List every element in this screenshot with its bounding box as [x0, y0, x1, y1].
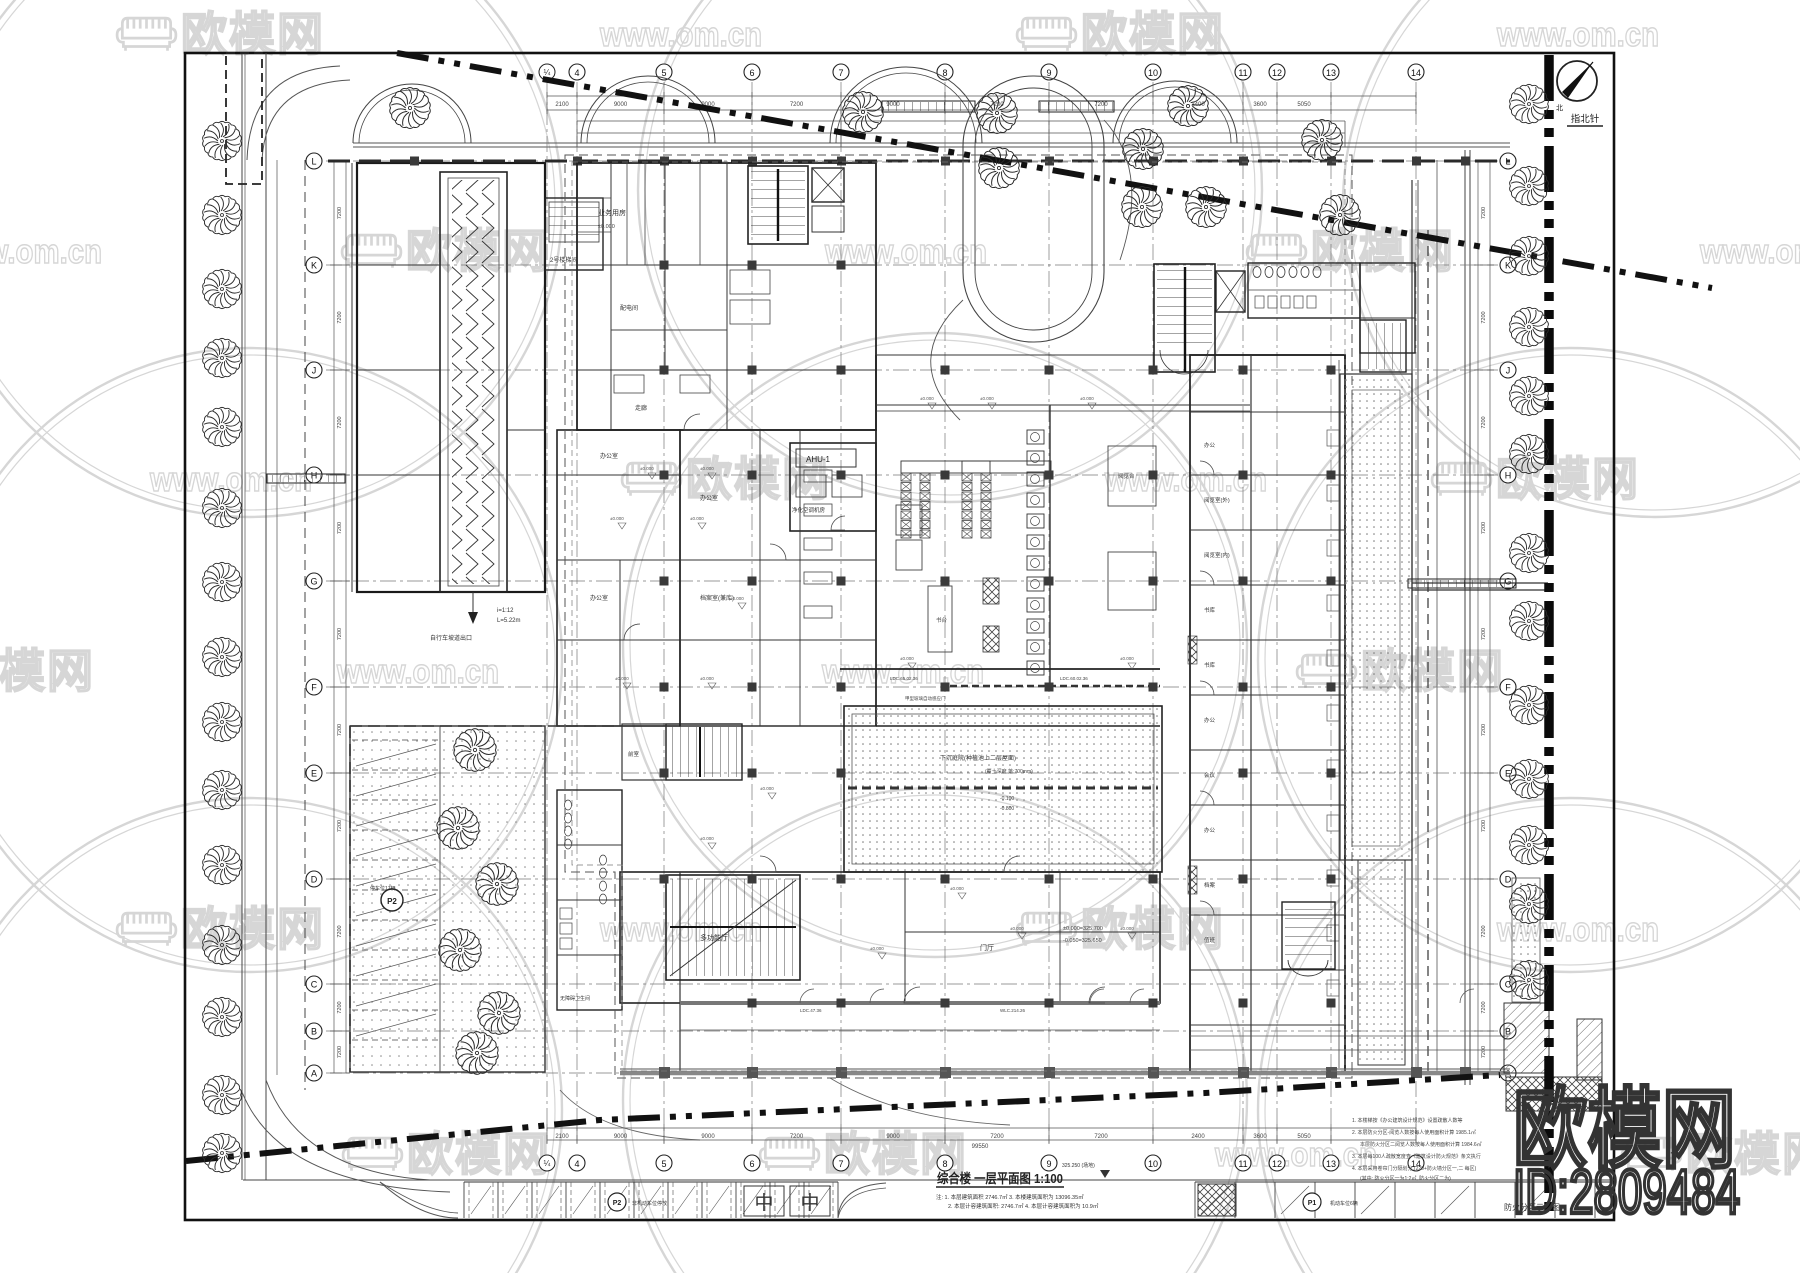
svg-text:±0.000: ±0.000: [950, 886, 964, 891]
watermark logo 欧模网: [622, 463, 681, 496]
AHU room: [790, 443, 876, 531]
bottom strip top edge: [243, 1179, 1614, 1181]
left dimension lines: [333, 161, 335, 1073]
NE stair: [1154, 264, 1215, 372]
svg-text:2. 本层防火分区-阅览人数按每人使用面积计算 1985.1: 2. 本层防火分区-阅览人数按每人使用面积计算 1985.1㎡: [1352, 1129, 1476, 1136]
bottom parking strip right segment: [1195, 1181, 1612, 1183]
svg-text:净化空调机房: 净化空调机房: [792, 506, 826, 514]
setback fence lines: [577, 120, 1345, 122]
svg-text:综合楼 一层平面图 1:100: 综合楼 一层平面图 1:100: [937, 1171, 1063, 1186]
arch canopies: [353, 84, 471, 143]
grand hall boundary: [875, 355, 877, 726]
watermark logo 欧模网: [1017, 18, 1076, 51]
svg-text:www.om.cn: www.om.cn: [0, 233, 102, 271]
svg-text:7200: 7200: [1481, 1001, 1487, 1013]
svg-text:325.250 (场地): 325.250 (场地): [1062, 1162, 1095, 1169]
east wing outer wall: [1190, 355, 1345, 1073]
P2 circle: [381, 889, 403, 911]
svg-text:3. 本层每100人疏散宽度查《建筑设计防火规范》条文执行: 3. 本层每100人疏散宽度查《建筑设计防火规范》条文执行: [1352, 1153, 1481, 1160]
svg-text:门厅: 门厅: [980, 943, 994, 952]
structural columns: [660, 261, 669, 270]
svg-text:±0.000: ±0.000: [610, 516, 624, 521]
watermark logo 欧模网: [342, 235, 401, 268]
svg-text:±0.000: ±0.000: [870, 946, 884, 951]
svg-text:±0.000: ±0.000: [920, 396, 934, 401]
right dimension lines: [1477, 161, 1479, 1073]
svg-text:J: J: [312, 366, 317, 376]
svg-text:±0.000: ±0.000: [1120, 926, 1134, 931]
svg-text:-0.100: -0.100: [1000, 796, 1014, 802]
east colonnade verticals: [1411, 180, 1413, 1073]
SW stair small: [666, 724, 742, 780]
svg-text:±0.000: ±0.000: [1080, 396, 1094, 401]
svg-text:11: 11: [1238, 1159, 1247, 1169]
north sidewalk lines: [353, 142, 1510, 144]
svg-text:13: 13: [1326, 1159, 1336, 1169]
NE elevator: [1216, 271, 1245, 312]
NW stair room: [545, 198, 603, 270]
zhong parking boxes: [744, 1186, 784, 1216]
svg-text:4. 本层采用卷帘门分隔划分,(220+防火墙分区一,二 每: 4. 本层采用卷帘门分隔划分,(220+防火墙分区一,二 每区): [1352, 1165, 1477, 1172]
watermark logo 欧模网: [760, 1138, 819, 1171]
svg-text:中: 中: [754, 1192, 773, 1214]
svg-text:P1: P1: [1308, 1200, 1317, 1207]
south colonnade steps: [1190, 1035, 1508, 1037]
east walkway stipple: [1340, 374, 1412, 860]
svg-text:7200: 7200: [1481, 416, 1487, 428]
watermark logo 欧模网: [117, 18, 176, 51]
NW wing inner walls: [357, 264, 440, 266]
svg-text:www.om.cn: www.om.cn: [336, 653, 499, 691]
vertical grid lines: [546, 82, 548, 1143]
svg-text:2100: 2100: [555, 102, 569, 108]
svg-text:3600: 3600: [1253, 102, 1267, 108]
svg-text:5: 5: [661, 68, 666, 78]
svg-text:7: 7: [838, 68, 843, 78]
svg-text:7200: 7200: [337, 207, 343, 219]
svg-text:L=5.22m: L=5.22m: [497, 618, 521, 624]
svg-text:欧模网: 欧模网: [1496, 453, 1640, 505]
svg-text:LDC.65.02.36: LDC.65.02.36: [890, 676, 918, 681]
svg-text:7200: 7200: [337, 724, 343, 736]
walkway lower extension: [1358, 860, 1405, 1065]
P2 bubble bottom: [608, 1193, 626, 1211]
svg-text:±0.000: ±0.000: [700, 836, 714, 841]
svg-text:9: 9: [1046, 1159, 1051, 1169]
svg-text:办公: 办公: [1204, 716, 1216, 724]
svg-text:7200: 7200: [1481, 311, 1487, 323]
svg-text:±0.000: ±0.000: [615, 676, 629, 681]
svg-text:配电间: 配电间: [620, 304, 638, 312]
east wing corridor: [1189, 355, 1191, 1073]
svg-text:7200: 7200: [1481, 522, 1487, 534]
svg-text:4: 4: [574, 1159, 579, 1169]
grid bubbles top: [539, 64, 555, 80]
svg-text:7200: 7200: [337, 311, 343, 323]
grand south stair: [666, 875, 800, 980]
svg-text:±0.000: ±0.000: [690, 516, 704, 521]
east wing fixtures: [1327, 430, 1339, 446]
svg-text:2400: 2400: [1191, 1134, 1205, 1140]
top dimension lines: [547, 95, 1416, 97]
svg-text:7200: 7200: [1481, 628, 1487, 640]
svg-text:www.om.cn: www.om.cn: [599, 16, 762, 54]
portico columns row A: [620, 1071, 1510, 1076]
svg-text:P2: P2: [613, 1200, 622, 1207]
svg-text:¼: ¼: [544, 1159, 551, 1168]
watermark logo 欧模网: [1247, 235, 1306, 268]
svg-text:C: C: [311, 980, 318, 990]
reading desk clusters: [901, 461, 990, 473]
svg-text:业务用房: 业务用房: [598, 208, 626, 217]
top-left road curve: [247, 66, 340, 160]
stadium ring landscape: [963, 76, 1104, 342]
striped bars: [882, 101, 975, 112]
reading tables: [1108, 446, 1156, 506]
svg-text:7200: 7200: [337, 416, 343, 428]
book shelf column: [1027, 430, 1044, 444]
svg-text:办公室: 办公室: [590, 594, 608, 602]
west road lines: [241, 53, 243, 1180]
svg-text:6: 6: [749, 68, 754, 78]
east entry stair: [1360, 320, 1406, 372]
watermark logo 欧模网: [1297, 655, 1356, 688]
extra door arcs: [684, 414, 700, 430]
svg-text:±0.000: ±0.000: [700, 676, 714, 681]
svg-text:机动车位6辆: 机动车位6辆: [1330, 1200, 1358, 1207]
svg-text:书台: 书台: [936, 616, 948, 624]
bicycle ramp strip: [440, 172, 507, 592]
svg-text:±0.000: ±0.000: [640, 466, 654, 471]
svg-text:B: B: [311, 1027, 317, 1037]
svg-text:F: F: [311, 683, 317, 693]
svg-text:D: D: [311, 875, 318, 885]
SW toilets block: [557, 790, 622, 1010]
corridor hatch shafts: [1188, 636, 1197, 664]
svg-text:注: 1. 本层建筑面积 2746.7㎡ 3.: 注: 1. 本层建筑面积 2746.7㎡ 3. 本楼建筑面积为 13096.35…: [936, 1193, 1084, 1201]
elevator: [812, 168, 844, 202]
svg-text:2号楼梯间: 2号楼梯间: [550, 256, 577, 264]
svg-text:书库: 书库: [1204, 606, 1216, 614]
svg-text:9: 9: [1046, 68, 1051, 78]
svg-text:9000: 9000: [614, 1134, 628, 1140]
svg-text:i=1:12: i=1:12: [497, 608, 514, 614]
svg-text:¼: ¼: [544, 68, 551, 77]
north central rooms: [577, 163, 876, 430]
svg-text:LDC.60.02.36: LDC.60.02.36: [1060, 676, 1088, 681]
svg-text:4: 4: [574, 68, 579, 78]
svg-text:6: 6: [749, 1159, 754, 1169]
svg-text:5050: 5050: [1297, 1134, 1311, 1140]
dashed parcel rectangle top-left: [226, 53, 262, 184]
svg-text:1. 本楼梯按《办公建筑设计规范》设置疏散人数等: 1. 本楼梯按《办公建筑设计规范》设置疏散人数等: [1352, 1117, 1463, 1124]
grid bubbles right: [1500, 153, 1516, 169]
svg-text:指北针: 指北针: [1571, 113, 1600, 125]
svg-text:下沉庭院(种植池上二层屋面): 下沉庭院(种植池上二层屋面): [940, 754, 1016, 762]
svg-text:7200: 7200: [337, 1046, 343, 1058]
svg-text:值班: 值班: [1204, 936, 1216, 944]
svg-text:AHU-1: AHU-1: [806, 455, 831, 464]
site boundary diagonal top: [397, 53, 1712, 288]
svg-text:LDC.47.36: LDC.47.36: [800, 1008, 822, 1013]
street trees east column: [1510, 84, 1549, 123]
svg-text:-0.050=325.650: -0.050=325.650: [1063, 938, 1102, 944]
svg-text:9000: 9000: [614, 102, 628, 108]
svg-text:2100: 2100: [555, 1134, 569, 1140]
svg-text:阅览室(外): 阅览室(外): [1204, 496, 1230, 504]
svg-text:办公室: 办公室: [600, 452, 618, 460]
grid bubbles bottom: [539, 1155, 555, 1171]
small lobby block left: [622, 724, 666, 780]
svg-text:阅览台: 阅览台: [1118, 472, 1135, 480]
svg-text:7200: 7200: [790, 1134, 804, 1140]
svg-text:7200: 7200: [337, 925, 343, 937]
courtyard stipple: [844, 706, 1162, 872]
svg-text:-0.800: -0.800: [1000, 806, 1014, 812]
svg-text:12: 12: [1272, 68, 1282, 78]
svg-text:停车位17辆: 停车位17辆: [370, 885, 396, 892]
site boundary diagonal bottom: [186, 1075, 1500, 1161]
svg-text:7200: 7200: [790, 102, 804, 108]
roof overhang dashed outline: [565, 155, 1352, 1078]
svg-text:办公: 办公: [1204, 826, 1216, 834]
svg-text:J: J: [1506, 366, 1511, 376]
heavy dashed red-line east: [1544, 55, 1554, 1218]
strip arc opening: [838, 1183, 886, 1218]
svg-text:±0.000=325.700: ±0.000=325.700: [1063, 926, 1103, 932]
svg-text:7200: 7200: [1481, 724, 1487, 736]
SE stair: [1282, 902, 1335, 969]
svg-text:±0.000: ±0.000: [760, 786, 774, 791]
svg-text:3600: 3600: [1253, 1134, 1267, 1140]
svg-text:K: K: [1505, 261, 1511, 271]
svg-text:E: E: [311, 769, 317, 779]
svg-text:走廊: 走廊: [635, 404, 647, 412]
horizontal grid lines: [326, 160, 1498, 162]
svg-text:中: 中: [800, 1192, 819, 1214]
parking area stipple: [350, 726, 545, 1072]
bottom-left road curves: [266, 1080, 430, 1180]
svg-text:7200: 7200: [337, 1001, 343, 1013]
NE small rooms right: [1360, 263, 1415, 353]
stair core 3: [748, 166, 808, 244]
bottom dimension lines: [547, 1127, 1416, 1129]
svg-text:12: 12: [1272, 1159, 1282, 1169]
svg-text:9000: 9000: [886, 1134, 900, 1140]
svg-text:书库: 书库: [1204, 661, 1216, 669]
svg-text:阅览室(内): 阅览室(内): [1204, 551, 1230, 559]
svg-text:14: 14: [1411, 68, 1421, 78]
svg-text:无障碍卫生间: 无障碍卫生间: [560, 995, 590, 1002]
svg-text:前室: 前室: [628, 750, 640, 758]
svg-text:欧模网: 欧模网: [0, 645, 95, 697]
hall south wall: [840, 668, 1160, 670]
west boundary fence: [304, 160, 306, 1090]
svg-text:www.om.cn: www.om.cn: [1699, 233, 1800, 271]
svg-text:北: 北: [1556, 104, 1563, 112]
central kitchen block: [896, 540, 922, 570]
svg-text:8: 8: [942, 1159, 947, 1169]
walkway south spur: [1512, 878, 1540, 1002]
street trees west column: [203, 121, 242, 160]
svg-text:99550: 99550: [972, 1144, 989, 1150]
courtyard dashed band: [848, 787, 1158, 790]
svg-text:ID:2809484: ID:2809484: [1513, 1158, 1740, 1227]
east bridge dashes: [1412, 582, 1548, 584]
svg-text:7200: 7200: [1094, 1134, 1108, 1140]
ramp exit arrow: [472, 592, 474, 620]
svg-text:9000: 9000: [701, 1134, 715, 1140]
equipment row small boxes: [804, 470, 832, 482]
svg-text:±0.000: ±0.000: [1120, 656, 1134, 661]
svg-text:办公: 办公: [1204, 441, 1216, 449]
svg-text:11: 11: [1238, 68, 1247, 78]
svg-text:WLC.214.26: WLC.214.26: [1000, 1008, 1026, 1013]
svg-text:7200: 7200: [1481, 820, 1487, 832]
watermark logo 欧模网: [343, 1138, 402, 1171]
svg-text:7200: 7200: [337, 820, 343, 832]
svg-text:C: C: [1505, 980, 1512, 990]
north facade line row L: [328, 160, 1510, 163]
svg-text:甲型玻璃自动感应门: 甲型玻璃自动感应门: [905, 695, 946, 702]
svg-text:5050: 5050: [1297, 102, 1311, 108]
svg-text:档案: 档案: [1204, 881, 1216, 889]
svg-text:±0.000: ±0.000: [900, 656, 914, 661]
parking bays: [352, 739, 440, 741]
svg-text:(覆土深度 落:700mm): (覆土深度 落:700mm): [985, 768, 1033, 775]
P1 bubble bottom: [1303, 1193, 1321, 1211]
svg-text:7200: 7200: [990, 1134, 1004, 1140]
small hatched service desks: [983, 578, 999, 604]
svg-text:www.om.cn: www.om.cn: [1496, 16, 1659, 54]
garden trees top: [390, 87, 431, 128]
svg-text:D: D: [1505, 875, 1512, 885]
fire compartment hatched blocks: [1504, 1003, 1549, 1073]
svg-text:±0.000: ±0.000: [1010, 926, 1024, 931]
svg-text:10: 10: [1148, 68, 1158, 78]
svg-text:7200: 7200: [1481, 207, 1487, 219]
south band rooms: [620, 872, 1160, 1003]
svg-text:档案室(兼库): 档案室(兼库): [700, 594, 734, 602]
svg-text:±0.000: ±0.000: [980, 396, 994, 401]
svg-text:www.om.cn: www.om.cn: [1104, 461, 1267, 499]
central band rooms: [557, 430, 680, 726]
NW wing outer walls: [357, 163, 545, 592]
svg-text:自行车坡道出口: 自行车坡道出口: [430, 634, 472, 642]
svg-text:L: L: [311, 157, 316, 167]
parking boundary dashes: [349, 726, 351, 1072]
svg-text:G: G: [310, 577, 317, 587]
watermark logo 欧模网: [117, 913, 176, 946]
north arrow: [1557, 61, 1597, 101]
svg-text:7200: 7200: [1481, 925, 1487, 937]
svg-text:办公室: 办公室: [700, 494, 718, 502]
svg-text:(其中: 防火分区一为1:2㎡, 防火分区二为): (其中: 防火分区一为1:2㎡, 防火分区二为): [1360, 1175, 1451, 1182]
svg-text:5: 5: [661, 1159, 666, 1169]
watermark logo 欧模网: [1432, 463, 1491, 496]
bottom parking strip left segment: [464, 1181, 838, 1183]
svg-text:7200: 7200: [337, 522, 343, 534]
grid bubbles left: [306, 153, 322, 169]
watermark big circles: [0, 0, 562, 517]
drawing frame: [185, 53, 1614, 1220]
svg-text:7200: 7200: [337, 628, 343, 640]
svg-text:F: F: [1505, 683, 1511, 693]
svg-text:±0.000: ±0.000: [598, 224, 615, 230]
watermark logo 欧模网: [1622, 1138, 1681, 1171]
svg-text:A: A: [311, 1069, 317, 1079]
svg-text:7200: 7200: [1481, 1046, 1487, 1058]
south facade wall: [680, 1001, 1160, 1005]
parking trees: [454, 729, 496, 772]
svg-text:非机动车位停放: 非机动车位停放: [632, 1200, 667, 1207]
svg-text:13: 13: [1326, 68, 1336, 78]
svg-text:7: 7: [838, 1159, 843, 1169]
watermark logo 欧模网: [1017, 913, 1076, 946]
svg-text:±0.000: ±0.000: [700, 466, 714, 471]
svg-text:会议: 会议: [1204, 771, 1216, 779]
svg-text:P2: P2: [387, 897, 397, 906]
hatch box bottom strip: [1198, 1184, 1236, 1216]
svg-text:±0.000: ±0.000: [730, 596, 744, 601]
toilets block NE: [1248, 263, 1360, 318]
svg-text:K: K: [311, 261, 317, 271]
svg-text:H: H: [1505, 471, 1512, 481]
svg-text:2. 本层计容建筑面积: 2746.7㎡ 4. 本层计容建: 2. 本层计容建筑面积: 2746.7㎡ 4. 本层计容建筑面积为 10.9㎡: [948, 1202, 1099, 1210]
svg-text:本层防火分区二阅览人数按每人使用面积计算 1984.6㎡: 本层防火分区二阅览人数按每人使用面积计算 1984.6㎡: [1360, 1141, 1482, 1148]
svg-text:10: 10: [1148, 1159, 1158, 1169]
